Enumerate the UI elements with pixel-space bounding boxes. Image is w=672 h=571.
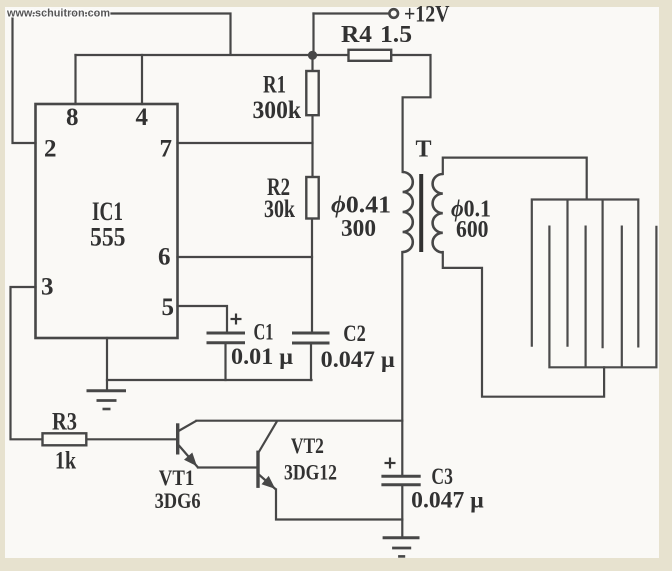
svg-text:C2: C2: [343, 321, 366, 346]
wire pin3 to R3: [11, 287, 43, 439]
wire pin8 riser: [74, 55, 76, 104]
wire pin5 to C1: [178, 306, 228, 332]
wire VCC rail: [76, 54, 349, 56]
wire pin7: [178, 142, 313, 144]
resistor R4 body: [349, 50, 392, 61]
svg-text:1k: 1k: [55, 448, 76, 475]
svg-text:VT1: VT1: [159, 465, 195, 490]
svg-text:VT2: VT2: [291, 433, 324, 458]
wire pin4 riser: [141, 55, 143, 104]
wire +12V stub: [314, 12, 390, 14]
svg-text:3DG6: 3DG6: [155, 488, 201, 513]
svg-text:C1: C1: [254, 320, 274, 345]
wire R1 top stub: [311, 55, 313, 71]
wire drop from +12V line to rail: [312, 14, 314, 54]
svg-text:T: T: [416, 137, 432, 163]
electrode grid upper comb: [532, 200, 639, 349]
capacitor C3 polarity plus: [385, 458, 396, 469]
capacitor C1 plates: [207, 333, 246, 343]
wire transformer secondary top to electrode grid: [443, 158, 587, 199]
wire collector line VT1/VT2: [197, 420, 403, 422]
svg-text:R1: R1: [263, 72, 286, 99]
wire R3 to VT1 base: [86, 438, 176, 440]
svg-text:600: 600: [456, 217, 489, 243]
transistor VT2: [258, 421, 277, 489]
resistor R1 body: [306, 71, 318, 115]
svg-text:30k: 30k: [264, 196, 295, 223]
transistor VT1: [178, 421, 198, 468]
wire pin6: [178, 256, 313, 258]
wire R4 right to transformer primary top: [392, 55, 431, 172]
resistor R2 body: [306, 177, 318, 219]
capacitor C1 polarity plus: [231, 314, 242, 325]
wire C3 bottom to ground: [401, 486, 403, 537]
svg-text:300k: 300k: [253, 97, 302, 124]
transformer T secondary winding: [433, 174, 443, 252]
svg-text:0.01 μ: 0.01 μ: [231, 344, 293, 369]
svg-text:0.047 μ: 0.047 μ: [411, 488, 484, 513]
svg-text:8: 8: [66, 104, 79, 131]
transformer T core: [419, 174, 423, 252]
wire R1 bottom to R2: [311, 115, 313, 177]
svg-text:R4: R4: [341, 22, 372, 48]
svg-text:0.047 μ: 0.047 μ: [321, 347, 395, 372]
svg-text:R3: R3: [52, 409, 77, 436]
wire C2 bottom: [310, 345, 312, 381]
capacitor C3 plates: [381, 476, 420, 485]
svg-text:300: 300: [341, 216, 376, 242]
svg-text:6: 6: [158, 244, 171, 271]
svg-text:4: 4: [136, 104, 149, 131]
wire transformer secondary bottom to electrode grid: [443, 252, 604, 397]
wire R2 bottom to C2 top: [311, 219, 313, 332]
wire VT2 emitter down and right: [276, 490, 402, 520]
svg-text:5: 5: [162, 294, 175, 321]
IC1 555 body: [36, 104, 178, 338]
ground under IC1: [87, 391, 127, 409]
svg-text:555: 555: [90, 223, 126, 252]
electrode grid lower comb: [549, 226, 656, 368]
wire VT1 emitter to VT2 base: [198, 466, 257, 468]
wire ground bus under IC: [107, 379, 312, 381]
terminal circle +12V: [389, 9, 398, 18]
svg-text:www.schuitron.com: www.schuitron.com: [6, 8, 110, 20]
wire transformer primary bottom to C3: [401, 252, 403, 475]
transformer T primary winding: [403, 172, 413, 252]
wire C1 bottom: [224, 344, 226, 380]
ground under C3: [383, 538, 420, 557]
capacitor C2 plates: [292, 333, 330, 343]
svg-text:2: 2: [44, 136, 57, 163]
junction dot R1/R4 node: [308, 51, 317, 60]
svg-text:C3: C3: [431, 464, 453, 489]
wire IC ground stub: [106, 338, 108, 391]
svg-text:ϕ0.41: ϕ0.41: [331, 193, 391, 219]
svg-text:7: 7: [160, 136, 173, 163]
svg-text:1.5: 1.5: [380, 22, 412, 48]
svg-text:3DG12: 3DG12: [284, 460, 337, 485]
resistor R3 body: [43, 433, 87, 445]
wire pin2 to top-left corner and top rail link: [13, 14, 231, 144]
svg-text:3: 3: [41, 274, 54, 301]
